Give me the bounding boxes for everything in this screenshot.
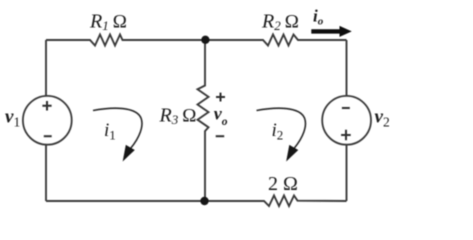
svg-text:vo: vo [214,103,228,128]
svg-text:R1Ω: R1Ω [89,11,127,34]
svg-text:i1: i1 [104,120,116,143]
svg-text:R2Ω: R2Ω [261,11,299,34]
svg-text:io: io [313,7,324,28]
svg-text:2 Ω: 2 Ω [268,173,298,195]
svg-text:i2: i2 [272,120,284,143]
svg-text:v1: v1 [5,107,20,130]
svg-text:R3Ω: R3Ω [159,105,197,128]
svg-text:v2: v2 [375,107,390,130]
